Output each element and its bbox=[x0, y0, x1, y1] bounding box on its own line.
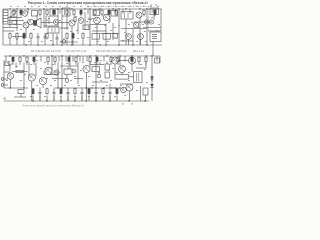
junction dot 4 bbox=[43, 8, 44, 9]
ref label B29 bbox=[12, 70, 14, 73]
junction dot 35 bbox=[95, 55, 96, 56]
junction dot 29 bbox=[35, 55, 36, 56]
ref label B12 bbox=[88, 75, 90, 78]
ref label B48 bbox=[80, 69, 82, 72]
wire h-seg B y78b bbox=[74, 78, 83, 80]
wire h-seg B y64 bbox=[90, 64, 104, 66]
transformer T2 box bbox=[48, 27, 59, 33]
junction dot 8 bbox=[84, 8, 85, 9]
wire col x78 bbox=[77, 23, 79, 34]
wire VT2 drop bbox=[25, 28, 27, 38]
resistor R39 bbox=[96, 56, 98, 65]
value label top 19 bbox=[136, 5, 138, 8]
ref label B32 bbox=[70, 79, 72, 82]
wire VT16-VT17 link bbox=[119, 60, 129, 62]
resistor R10 bbox=[101, 9, 103, 16]
electrolytic C50 bbox=[65, 74, 69, 82]
ref label B17 bbox=[122, 65, 124, 68]
junction dot 15 bbox=[146, 8, 147, 9]
wire low drop x40 bbox=[39, 96, 41, 102]
transistor VT14 bbox=[39, 77, 46, 84]
junction dot 23 bbox=[146, 44, 147, 45]
value label top 20 bbox=[143, 5, 145, 8]
wire left edge B bbox=[3, 60, 5, 88]
junction dot 52 bbox=[32, 100, 33, 101]
resistor stack Rb bbox=[105, 72, 109, 78]
junction dot 13 bbox=[125, 8, 126, 9]
transistor VT15 bbox=[83, 65, 90, 72]
ref label A10 bbox=[86, 20, 88, 23]
ref label A18 bbox=[144, 30, 146, 33]
value label top 3 bbox=[24, 5, 26, 8]
wire drop B x83 bbox=[82, 56, 84, 62]
junction dot 47 bbox=[111, 87, 112, 88]
wire VT5 emitter bbox=[96, 24, 98, 45]
ref label A32 bbox=[136, 40, 138, 43]
ref label B49 bbox=[112, 67, 114, 70]
ref label A34 bbox=[9, 21, 11, 24]
wire R23 to bus bbox=[30, 40, 32, 46]
ref label A40 bbox=[108, 21, 110, 24]
wire h-seg y17 bbox=[8, 17, 22, 19]
ref label B18 bbox=[128, 79, 130, 82]
wire T2 to bus bbox=[52, 33, 54, 45]
value label top 10 bbox=[73, 5, 75, 8]
junction dot 27 bbox=[9, 55, 10, 56]
inductor L1 ferrite antenna bbox=[3, 10, 8, 24]
value label top 1 bbox=[10, 5, 12, 8]
wire drop B x41 bbox=[40, 56, 42, 62]
junction dot 37 bbox=[119, 55, 120, 56]
wire h-seg B y82 bbox=[92, 81, 108, 83]
wire low drop x61 bbox=[60, 96, 62, 102]
wire col B x78 bbox=[77, 62, 79, 84]
transistor VT12 bbox=[28, 74, 35, 81]
transistor VT13 bbox=[45, 67, 52, 74]
ref label B40 bbox=[102, 95, 104, 98]
transistor VT6 bbox=[103, 14, 110, 21]
ref label A23 bbox=[41, 40, 43, 43]
capacitor C35 bbox=[67, 88, 70, 102]
ref label B11 bbox=[82, 61, 84, 64]
output transformer T6 bbox=[134, 72, 143, 83]
junction dot 14 bbox=[139, 8, 140, 9]
wire right stub bbox=[159, 56, 161, 63]
resistor R41 bbox=[117, 56, 119, 65]
IF box T4b bbox=[111, 11, 118, 17]
svg-text:C8 0,01 R9 470 C12 5,0: C8 0,01 R9 470 C12 5,0 bbox=[96, 49, 127, 53]
ref label A43 bbox=[142, 23, 144, 26]
ref label A11 bbox=[95, 26, 97, 29]
wire h-seg B y66 bbox=[60, 65, 78, 67]
value label top 2 bbox=[17, 5, 19, 8]
wire col B x24 bbox=[23, 63, 25, 89]
junction dot 57 bbox=[95, 100, 96, 101]
wire top bus band B bbox=[4, 55, 160, 57]
ref label B13 bbox=[94, 61, 96, 64]
wire col B x70 bbox=[69, 62, 71, 69]
wire drop B x80 bbox=[79, 56, 81, 62]
wire h-seg y22 bbox=[41, 22, 54, 24]
ref label B38 bbox=[74, 95, 76, 98]
capacitor C41 bbox=[109, 88, 112, 102]
resistor R2 bbox=[20, 9, 22, 16]
wire h-seg y22b bbox=[59, 22, 69, 24]
ref label A1 bbox=[12, 23, 14, 26]
value label top 16 bbox=[115, 5, 117, 8]
resistor R44 bbox=[145, 56, 147, 65]
capacitor C39 bbox=[95, 88, 98, 102]
ref label A31 bbox=[122, 39, 124, 42]
ref label A16 bbox=[131, 21, 133, 24]
resistor R6 bbox=[66, 9, 68, 16]
diode VD1 bbox=[150, 77, 153, 80]
wire h-seg y18r bbox=[109, 16, 111, 22]
ref label A14 bbox=[114, 26, 116, 29]
wire R26 to bus bbox=[82, 40, 84, 46]
wire low drop x89 bbox=[88, 96, 90, 102]
value label top 9 bbox=[66, 5, 68, 8]
junction dot 11 bbox=[112, 8, 113, 9]
transformer T4 bbox=[121, 12, 133, 20]
wire col x37 bbox=[36, 16, 38, 21]
ref label B20 bbox=[144, 68, 146, 71]
ref label A36 bbox=[48, 17, 50, 20]
transistor VT3 bbox=[69, 20, 75, 26]
wire VT17 down bbox=[131, 64, 133, 72]
wire h-seg y20 left bbox=[8, 20, 23, 22]
electrolytic C51 bbox=[97, 72, 101, 78]
wire R22 to bus bbox=[23, 40, 25, 46]
wire drop B x125 bbox=[124, 56, 126, 62]
transistor VT17 bbox=[129, 57, 136, 64]
ref label B22 bbox=[36, 84, 38, 87]
wire col B x62 bbox=[61, 62, 63, 88]
wire col B x36 bbox=[35, 63, 37, 77]
ref label A30 bbox=[115, 37, 117, 40]
junction dot 54 bbox=[60, 100, 61, 101]
transistor VT7 bbox=[133, 22, 139, 28]
wire drop B x87 bbox=[86, 56, 88, 62]
junction dot 25 bbox=[37, 44, 38, 45]
capacitor block C10 bbox=[150, 8, 159, 15]
wire drop B x6 bbox=[5, 56, 7, 62]
resistor R21 bbox=[16, 32, 18, 39]
resistor R30 bbox=[12, 56, 14, 65]
value label top 13 bbox=[94, 5, 96, 8]
wire h-seg bottomleft bbox=[14, 96, 26, 98]
wire col B x58 bbox=[57, 62, 59, 88]
resistor box RA1 bbox=[83, 25, 89, 30]
wire col x133 bbox=[132, 28, 134, 45]
junction dot 10 bbox=[99, 8, 100, 9]
wire col x46 bbox=[45, 16, 47, 28]
wire h-seg y28 shield bbox=[121, 28, 147, 30]
ref label A24 bbox=[50, 39, 52, 42]
wire h-seg y28 mid bbox=[60, 27, 69, 29]
transistor VT13b bbox=[54, 70, 59, 75]
wire VT19 down bbox=[129, 91, 131, 101]
junction dot 6 bbox=[61, 8, 62, 9]
transistor VT18 bbox=[119, 66, 126, 73]
junction dot 41 bbox=[9, 87, 10, 88]
ref label A15 bbox=[124, 31, 126, 34]
transformer T0 box bbox=[32, 11, 38, 17]
wire col x10 bbox=[9, 16, 11, 27]
wire drop B x66 bbox=[65, 56, 67, 62]
wire drop node x156 bbox=[155, 9, 157, 14]
resistor box R26 bbox=[92, 34, 100, 40]
wire drop B x73 bbox=[72, 56, 74, 62]
wire col B x146 bbox=[145, 62, 147, 68]
wire R20 to bus bbox=[9, 40, 11, 46]
wire col x49 bbox=[48, 16, 50, 24]
wire col B x100 bbox=[99, 62, 101, 65]
resistor R43 bbox=[138, 56, 140, 65]
junction dot 16 bbox=[61, 44, 62, 45]
junction dot 60 bbox=[144, 100, 145, 101]
label under bus r2 bbox=[131, 103, 133, 106]
ref label B25 bbox=[78, 84, 80, 87]
resistor R22 bbox=[23, 32, 25, 39]
junction dot 46 bbox=[95, 87, 96, 88]
junction dot 19 bbox=[99, 44, 100, 45]
ref label A5 bbox=[46, 19, 48, 22]
wire low drop x68 bbox=[67, 96, 69, 102]
wire col x113 bbox=[112, 23, 114, 40]
wire drop B x157 bbox=[156, 56, 158, 62]
wire VT18 to driver bbox=[121, 73, 123, 75]
resistor R20 bbox=[9, 32, 11, 39]
speaker box BA2 bbox=[143, 88, 148, 101]
wire h-seg B y72L bbox=[4, 71, 10, 73]
ref label B1 bbox=[8, 60, 10, 63]
wire h-seg y27 bbox=[3, 27, 18, 29]
wire col x85 bbox=[84, 12, 86, 30]
wire VT16 down bbox=[114, 64, 116, 74]
wire col x154r bbox=[153, 15, 155, 21]
ref label B14 bbox=[100, 79, 102, 82]
lamp HL1 bbox=[144, 20, 148, 24]
junction dot 38 bbox=[131, 55, 132, 56]
resistor R37 bbox=[75, 56, 77, 65]
ref label B3 bbox=[24, 73, 26, 76]
ref label B26 bbox=[92, 84, 94, 87]
ref label A33 bbox=[145, 40, 147, 43]
wire h-seg y33 bbox=[100, 33, 119, 35]
wire col x147 bbox=[146, 9, 148, 45]
wire h-seg B y69r bbox=[136, 67, 146, 69]
ref label B43 bbox=[114, 95, 116, 98]
transistor VT1 bbox=[22, 11, 28, 17]
value label top 17 bbox=[122, 5, 124, 8]
wire h-seg B y76r bbox=[129, 76, 134, 78]
wire h-seg B y74 bbox=[44, 74, 58, 76]
junction dot 26 bbox=[52, 44, 53, 45]
resistor R4 bbox=[46, 9, 48, 16]
junction dot 20 bbox=[105, 44, 106, 45]
wire col x140 bbox=[139, 18, 141, 45]
junction dot 36 bbox=[106, 55, 107, 56]
wire R25 to bus bbox=[72, 40, 74, 46]
wire h-seg y41 right bbox=[120, 40, 133, 42]
resistor R11 bbox=[108, 9, 110, 16]
wire drop node x123 bbox=[122, 9, 124, 14]
volume pot box R51 bbox=[64, 66, 72, 74]
ref label A41 bbox=[118, 24, 120, 27]
junction dot 22 bbox=[132, 44, 133, 45]
resistor R24 bbox=[66, 32, 68, 39]
value label top 11 bbox=[80, 5, 82, 8]
wire VT3 emitter bbox=[71, 26, 73, 45]
wire col x126 bbox=[125, 19, 127, 45]
ref label A25 bbox=[60, 40, 62, 43]
value label top 14 bbox=[101, 5, 103, 8]
ref label B9 bbox=[66, 62, 68, 65]
ref label B21 bbox=[146, 81, 148, 84]
diode VD2 bbox=[150, 84, 153, 87]
electrolytic CA1 bbox=[62, 38, 65, 43]
ref label B51 bbox=[100, 59, 102, 62]
wire h-seg B y88 mid bbox=[55, 87, 120, 89]
wire col B x107 bbox=[106, 62, 108, 65]
wire h-seg y24L bbox=[8, 24, 22, 26]
resistor R33 bbox=[33, 56, 35, 65]
resistor R62 bbox=[46, 88, 48, 95]
wire h-seg y31r bbox=[92, 30, 106, 32]
wire R21 to bus bbox=[16, 40, 18, 46]
driver box RB1 bbox=[115, 75, 129, 80]
ref label A13 bbox=[110, 29, 112, 32]
wire col x115a bbox=[115, 9, 117, 13]
transistor VT9 bbox=[126, 34, 132, 40]
value label top 15 bbox=[108, 5, 110, 8]
value label top 21 bbox=[150, 5, 152, 8]
ref label B16 bbox=[116, 71, 118, 74]
resistor R5 bbox=[53, 9, 55, 16]
wire VT10 bus bbox=[140, 39, 142, 45]
resistor R70 bbox=[102, 88, 104, 95]
lamp HL2 bbox=[149, 20, 153, 24]
ref label A17 bbox=[138, 26, 140, 29]
junction dot 3 bbox=[27, 8, 28, 9]
wire VT15 down bbox=[86, 73, 88, 101]
resistor R42 bbox=[131, 56, 133, 65]
transistor VT16 bbox=[112, 57, 119, 64]
wire h-seg y22 shield bbox=[134, 21, 150, 23]
wire low drop x47 bbox=[46, 96, 48, 102]
ref label B42 bbox=[30, 95, 32, 98]
resistor R3 bbox=[39, 9, 41, 16]
resistor R12 bbox=[115, 9, 117, 16]
wire h-seg B y84r bbox=[120, 83, 133, 85]
svg-text:C5 10,0 R7 1,0к: C5 10,0 R7 1,0к bbox=[66, 49, 87, 53]
ref label B35 bbox=[136, 89, 138, 92]
wire col B x29 bbox=[28, 62, 30, 76]
wire h-seg y26 bbox=[44, 25, 58, 27]
wire right column band B bbox=[151, 56, 153, 101]
transistor VT5 bbox=[94, 17, 101, 24]
svg-text:R14 2,2к: R14 2,2к bbox=[133, 49, 145, 53]
value label top 7 bbox=[52, 5, 54, 8]
resistor R36 bbox=[68, 56, 70, 65]
junction dot 40 bbox=[151, 55, 152, 56]
ref label A21 bbox=[16, 38, 18, 41]
wire h-seg B y88 left bbox=[4, 87, 28, 89]
transistor VT11 bbox=[7, 73, 13, 79]
capacitor C37 bbox=[81, 88, 84, 102]
wire drop node x130 bbox=[129, 9, 131, 14]
wire bottom bus band A bbox=[3, 44, 162, 46]
wire h-seg B y71 bbox=[14, 71, 28, 73]
resistor R34 bbox=[47, 56, 49, 65]
ref label A3 bbox=[33, 28, 35, 31]
junction dot 43 bbox=[57, 87, 58, 88]
junction dot 5 bbox=[57, 8, 58, 9]
resistor R14 bbox=[154, 9, 156, 16]
junction dot 44 bbox=[61, 87, 62, 88]
transformer T1 bbox=[50, 9, 58, 16]
junction dot 9 bbox=[89, 8, 90, 9]
wire low drop x103 bbox=[102, 96, 104, 102]
wire col B x140b bbox=[140, 86, 142, 101]
ref label B41 bbox=[44, 95, 46, 98]
resistor R25 bbox=[72, 32, 74, 39]
junction dot 1 bbox=[9, 8, 10, 9]
ref label B7 bbox=[52, 63, 54, 66]
ref label B19 bbox=[134, 61, 136, 64]
wire low drop x75 bbox=[74, 96, 76, 102]
ref label A20 bbox=[156, 29, 158, 32]
resistor stack Ra bbox=[105, 64, 109, 70]
junction dot 32 bbox=[69, 55, 70, 56]
junction dot 31 bbox=[61, 55, 62, 56]
ref label A44 bbox=[158, 23, 160, 26]
speaker BA1 bbox=[34, 18, 42, 28]
label VE2 bbox=[155, 4, 157, 7]
value label top 8 bbox=[59, 5, 61, 8]
wire h-seg y31 bbox=[3, 30, 14, 32]
terminal box right bbox=[155, 58, 160, 63]
wire col B x44 bbox=[43, 71, 45, 75]
wire low drop x96 bbox=[95, 96, 97, 102]
wire drop node x44 bbox=[43, 9, 45, 14]
resistor R31 bbox=[19, 56, 21, 65]
ref label B50 bbox=[140, 63, 142, 66]
ref label A9 bbox=[76, 29, 78, 32]
junction dot 48 bbox=[119, 87, 120, 88]
antenna W2 input bbox=[8, 63, 13, 71]
transistor VT10 bbox=[138, 34, 144, 40]
ref label B37 bbox=[60, 95, 62, 98]
junction dot 33 bbox=[77, 55, 78, 56]
value label top 22 bbox=[157, 5, 159, 8]
junction dot 24 bbox=[25, 44, 26, 45]
capacitor C31 bbox=[39, 88, 42, 102]
capacitor C11 bbox=[37, 33, 40, 45]
ref label B34 bbox=[110, 79, 112, 82]
resistor R towers bbox=[74, 16, 76, 22]
wire drop B x104 bbox=[103, 56, 105, 62]
wire h-seg y31 right bbox=[148, 30, 161, 32]
resistor R13 bbox=[143, 9, 145, 16]
wire drop node x88 bbox=[87, 9, 89, 14]
wire col x119 bbox=[118, 9, 120, 45]
value label top 4 bbox=[31, 5, 33, 8]
ref label A2 bbox=[20, 28, 22, 31]
resistor R26 bbox=[82, 32, 84, 39]
resistor R40 bbox=[110, 56, 112, 65]
